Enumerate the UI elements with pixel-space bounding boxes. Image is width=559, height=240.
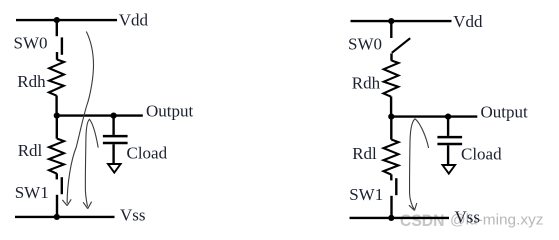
svg-text:Cload: Cload <box>461 144 502 163</box>
svg-text:Cload: Cload <box>127 143 168 162</box>
svg-text:Rdl: Rdl <box>352 144 377 163</box>
svg-text:Rdh: Rdh <box>17 72 46 91</box>
svg-text:Vss: Vss <box>120 206 146 225</box>
svg-text:Rdh: Rdh <box>352 74 381 93</box>
svg-text:SW1: SW1 <box>349 185 383 204</box>
svg-text:Vss: Vss <box>455 207 481 226</box>
svg-text:Output: Output <box>481 103 529 122</box>
svg-text:Vdd: Vdd <box>453 12 483 31</box>
svg-text:Rdl: Rdl <box>18 141 43 160</box>
svg-text:SW0: SW0 <box>14 33 48 52</box>
svg-text:SW1: SW1 <box>15 183 49 202</box>
svg-text:Output: Output <box>146 102 194 121</box>
svg-text:Vdd: Vdd <box>119 10 149 29</box>
svg-text:SW0: SW0 <box>348 34 382 53</box>
svg-text:CSDN: CSDN <box>400 212 445 230</box>
